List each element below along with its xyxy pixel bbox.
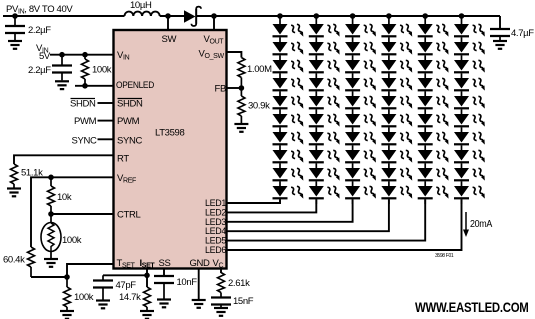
resistor R6 14.7k (144, 287, 151, 307)
svg-text:4.7µF: 4.7µF (511, 28, 534, 39)
wire: string3 bottom to LED3 pin (227, 199, 353, 221)
svg-text:LT3598: LT3598 (155, 128, 184, 139)
resistor R9 30.9k (238, 96, 245, 116)
junction OPENLED/R1 (82, 83, 88, 89)
capacitor C3 47pF (102, 275, 104, 279)
wire: PWM stub (98, 120, 114, 122)
wire: string6 bottom to LED6 pin (227, 199, 462, 250)
svg-text:SS: SS (159, 258, 171, 269)
svg-text:FB: FB (215, 84, 226, 95)
LED string 3 (10 LEDs) (345, 22, 378, 204)
svg-text:SHDN: SHDN (70, 99, 96, 110)
junction FB (239, 85, 245, 91)
junction string2 top (314, 13, 320, 19)
junction string5 top (422, 13, 428, 19)
svg-text:47pF: 47pF (116, 280, 137, 291)
ground under GND pin (192, 300, 206, 308)
svg-text:100k: 100k (62, 235, 82, 246)
resistor R1 100k pullup (84, 55, 86, 59)
junction ISET (144, 273, 150, 279)
ground under C5 (214, 308, 228, 316)
ground under R9 (234, 124, 248, 132)
ground under C4 (157, 300, 171, 308)
capacitor C2 2.2uF (61, 55, 63, 65)
wire string5 top stub (424, 16, 426, 24)
svg-text:OPENLED: OPENLED (116, 80, 154, 91)
resistor R2 51.1k (11, 164, 18, 184)
junction string6 top (459, 13, 465, 19)
svg-text:2.2µF: 2.2µF (28, 65, 51, 76)
wire: SHDN stub (98, 102, 114, 104)
wire: SS stub (163, 269, 165, 275)
svg-text:LED6: LED6 (205, 245, 226, 256)
wire: string5 bottom to LED5 pin (227, 199, 425, 240)
LED string 2 (10 LEDs) (309, 22, 342, 204)
wire: 60.4k bottom to TSET junction (31, 276, 67, 278)
svg-text:CTRL: CTRL (117, 210, 140, 221)
svg-text:10nF: 10nF (177, 277, 198, 288)
LED string 5 (10 LEDs) (418, 22, 451, 204)
junction VIN/R1 (82, 52, 88, 58)
resistor R3 10k (50, 177, 52, 186)
svg-text:15nF: 15nF (233, 296, 254, 307)
wire string3 top stub (352, 16, 354, 24)
svg-text:2.61k: 2.61k (228, 278, 250, 289)
svg-text:SYNC: SYNC (72, 135, 97, 146)
wire: string1 bottom to LED1 pin (227, 199, 280, 203)
LED string 6 (10 LEDs) (454, 22, 487, 204)
ground under C1 (8, 41, 22, 49)
svg-text:60.4k: 60.4k (3, 255, 25, 266)
svg-text:GND: GND (190, 258, 211, 269)
wire: VREF net (31, 177, 113, 247)
junction SW node (165, 13, 171, 19)
ground under thermistor (50, 252, 52, 259)
svg-text:30.9k: 30.9k (248, 101, 270, 112)
wire: ISET stub and 47pF link (146, 269, 148, 287)
junction string4 top (386, 13, 392, 19)
wire string2 top stub (315, 16, 317, 24)
wire string4 top stub (388, 16, 390, 24)
ground under R6 (140, 311, 154, 319)
wire: string2 bottom to LED2 pin (227, 199, 316, 212)
wire: diode to VOUT rail across LED tops (196, 15, 500, 17)
capacitor C5 15nF (211, 298, 231, 305)
svg-text:PWM: PWM (117, 116, 140, 127)
diode D1 (Schottky) (184, 10, 196, 22)
svg-text:1.00M: 1.00M (247, 64, 272, 75)
svg-text:RT: RT (117, 154, 129, 165)
svg-text:100k: 100k (92, 65, 112, 76)
wire: rail drop to C6 (499, 16, 501, 28)
thermistor RT1 100k NTC (50, 214, 52, 222)
ground under C2 (55, 81, 69, 89)
capacitor C1 2.2uF (14, 16, 16, 25)
op-amp U1 LT3598 body (114, 30, 227, 269)
resistor R5 100k (66, 277, 68, 287)
capacitor C6 4.7uF (490, 29, 510, 36)
wire: string4 bottom to LED4 pin (227, 199, 389, 231)
junction string3 top (350, 13, 356, 19)
junction VIN/C2 (59, 52, 65, 58)
svg-text:SYNC: SYNC (117, 135, 142, 146)
wire: CTRL net (51, 213, 113, 215)
junction CTRL/R3/thermistor (48, 211, 54, 217)
wire: VC stub (220, 269, 222, 273)
LED string 1 (10 LEDs) (273, 22, 306, 204)
junction PVIN/C1 (12, 13, 18, 19)
wire: FB net (227, 87, 241, 89)
wire: RT to R51.1k (14, 155, 113, 164)
20mA current arrow (465, 212, 467, 231)
wire: VOUT stub into IC (213, 16, 215, 30)
svg-text:3598 F01: 3598 F01 (435, 253, 454, 259)
svg-text:PWM: PWM (74, 116, 97, 127)
wire: PVIN rail left segment (3, 15, 125, 17)
LED string 4 (10 LEDs) (381, 22, 414, 204)
wire: SYNC stub (98, 138, 114, 140)
wire string6 top stub (461, 16, 463, 24)
ground under C3 (96, 301, 110, 309)
wire: TSET net from IC left edge (67, 264, 113, 277)
wire string1 top stub (279, 16, 281, 24)
junction VREF/R10k (48, 175, 54, 181)
ground under C6 (493, 41, 507, 49)
wire: SW stub into IC (167, 16, 169, 30)
svg-text:14.7k: 14.7k (119, 292, 141, 303)
svg-text:SW: SW (162, 34, 177, 45)
resistor R7 2.61k (218, 273, 225, 293)
svg-text:WWW.EASTLED.COM: WWW.EASTLED.COM (415, 300, 529, 315)
junction VOUT node (211, 13, 217, 19)
ground under R5 (60, 311, 74, 319)
resistor R8 1.00M (238, 58, 245, 78)
junction TSET/R4/R5 (64, 274, 70, 280)
svg-text:100k: 100k (74, 292, 94, 303)
wire: VO_SW to divider (227, 52, 241, 58)
svg-text:20mA: 20mA (470, 219, 493, 230)
svg-text:10k: 10k (57, 192, 72, 203)
junction string1 top (277, 13, 283, 19)
resistor R4 60.4k (28, 247, 35, 267)
wire: OPENLED net (75, 85, 113, 87)
wire: GND pin stub (198, 269, 200, 299)
ground under R2 (7, 189, 21, 197)
svg-text:2.2µF: 2.2µF (28, 25, 51, 36)
svg-text:SHDN: SHDN (117, 99, 143, 110)
svg-text:5V: 5V (39, 51, 51, 62)
svg-text:10µH: 10µH (130, 0, 152, 11)
capacitor C4 10nF (154, 276, 174, 283)
wire: inductor to diode (160, 15, 184, 17)
wire: VIN 5V to IC (50, 54, 113, 56)
